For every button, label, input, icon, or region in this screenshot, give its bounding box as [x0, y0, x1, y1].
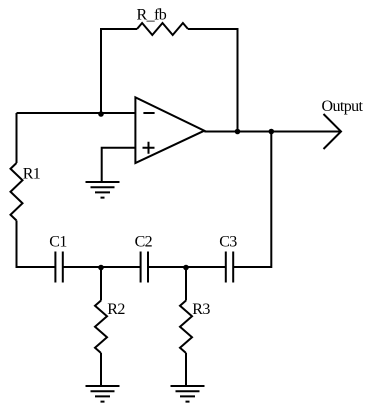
svg-text:C3: C3: [219, 234, 237, 251]
svg-text:R1: R1: [23, 165, 41, 182]
svg-text:R3: R3: [192, 301, 210, 318]
svg-text:C2: C2: [135, 234, 153, 251]
svg-text:R2: R2: [107, 301, 125, 318]
svg-text:Output: Output: [322, 98, 364, 115]
svg-text:R_fb: R_fb: [137, 7, 167, 24]
svg-text:C1: C1: [49, 234, 67, 251]
